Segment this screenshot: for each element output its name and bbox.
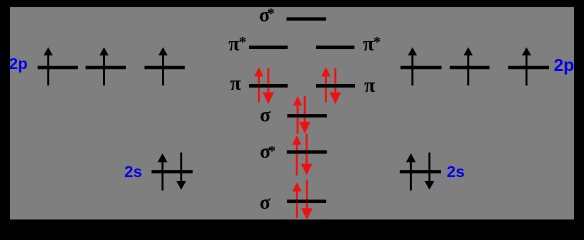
svg-text:*: *	[268, 144, 276, 160]
svg-text:2p: 2p	[9, 56, 28, 73]
svg-text:2p: 2p	[554, 55, 574, 75]
svg-text:π: π	[229, 34, 240, 56]
svg-text:*: *	[267, 6, 275, 22]
svg-text:σ: σ	[260, 105, 271, 127]
svg-text:*: *	[239, 35, 247, 51]
svg-text:2s: 2s	[447, 164, 465, 181]
svg-text:*: *	[373, 35, 381, 51]
svg-text:π: π	[364, 75, 375, 97]
svg-text:π: π	[230, 73, 241, 95]
svg-text:2s: 2s	[124, 164, 142, 181]
svg-text:σ: σ	[260, 192, 271, 214]
